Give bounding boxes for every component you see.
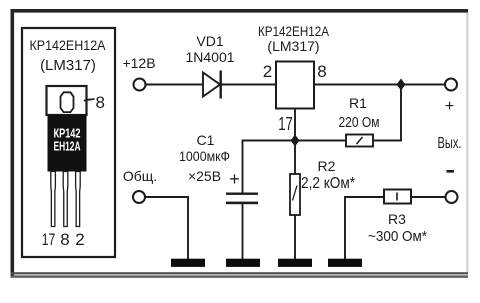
svg-text:ЕН12А: ЕН12А: [54, 139, 81, 154]
svg-text:R3: R3: [388, 211, 406, 227]
TO-220 tab: [47, 86, 87, 115]
outer frame left: [11, 9, 15, 276]
svg-text:8: 8: [60, 230, 69, 249]
outer frame right: [466, 13, 468, 273]
svg-text:220 Ом: 220 Ом: [339, 114, 380, 131]
leg 3: [76, 172, 81, 227]
wire R2 to ground: [294, 215, 296, 260]
wire diode to regulator pin 2: [221, 84, 276, 86]
common terminal circle: [133, 191, 145, 203]
svg-text:2: 2: [75, 230, 84, 249]
wire regulator pin 17 down: [294, 109, 296, 141]
output + terminal circle: [445, 79, 457, 91]
svg-text:1000мкФ: 1000мкФ: [179, 148, 230, 164]
output - terminal circle: [446, 191, 458, 203]
svg-text:R2: R2: [318, 158, 336, 174]
tab hole: [61, 92, 74, 112]
resistor R2: [290, 174, 300, 215]
svg-text:+: +: [445, 98, 454, 115]
ground symbol C1: [226, 259, 260, 267]
input terminal circle: [134, 79, 146, 91]
leg 1: [51, 172, 56, 227]
capacitor C1: [226, 193, 258, 205]
svg-text:(LM317): (LM317): [40, 57, 96, 74]
adjust node junction: [291, 135, 300, 147]
svg-text:C1: C1: [197, 132, 215, 148]
ground symbol R3: [328, 259, 362, 267]
svg-text:~300 Ом*: ~300 Ом*: [368, 228, 427, 245]
wire adjust rail horizontal: [243, 140, 347, 142]
svg-text:+12В: +12В: [122, 55, 155, 71]
resistor R1: [346, 135, 373, 147]
wire common terminal to ground: [145, 197, 188, 260]
svg-text:VD1: VD1: [196, 33, 223, 49]
svg-text:8: 8: [96, 93, 105, 112]
ground symbol common: [171, 259, 205, 267]
svg-text:Вых.: Вых.: [438, 135, 462, 152]
ground symbol R2: [278, 259, 312, 267]
output label minus: [447, 170, 455, 173]
outer frame bottom double line: [11, 272, 469, 274]
wire R3 left to ground: [345, 197, 384, 260]
diode VD1: [203, 71, 221, 99]
leader line to pin 8 of tab: [84, 99, 95, 101]
wire input to diode: [146, 84, 203, 86]
wire R3 to output - terminal: [411, 196, 446, 198]
svg-text:2: 2: [263, 62, 272, 81]
svg-text:R1: R1: [349, 95, 367, 111]
svg-text:17: 17: [42, 230, 56, 249]
wire junction to R2: [294, 141, 296, 175]
svg-text:2,2 кОм*: 2,2 кОм*: [301, 175, 355, 192]
svg-text:×25В: ×25В: [188, 168, 221, 184]
wire C1 top: [242, 140, 244, 193]
regulator U1 box: [276, 62, 314, 109]
wire R1 right to output rail: [373, 85, 401, 141]
resistor R3: [384, 190, 411, 204]
wire C1 bottom to ground: [242, 204, 244, 260]
IC package drawing box (left inset): [22, 28, 115, 257]
svg-text:8: 8: [317, 62, 326, 81]
svg-text:КР142ЕН12А: КР142ЕН12А: [30, 37, 107, 53]
svg-text:17: 17: [278, 114, 293, 134]
wire regulator pin 8 to output + terminal: [314, 84, 446, 86]
leg 2: [63, 172, 68, 227]
junction node on output rail: [397, 79, 406, 91]
svg-text:+: +: [229, 169, 240, 189]
outer frame top: [11, 9, 469, 13]
package body (black): [48, 115, 87, 172]
svg-text:КР142ЕН12А: КР142ЕН12А: [258, 23, 330, 39]
svg-text:1N4001: 1N4001: [185, 49, 234, 65]
svg-text:(LM317): (LM317): [267, 38, 319, 54]
svg-text:Общ.: Общ.: [123, 168, 157, 184]
